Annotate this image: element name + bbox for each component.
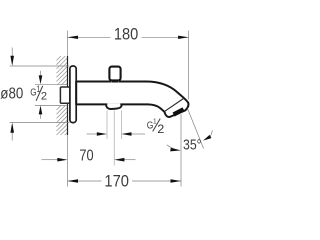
- svg-text:170: 170: [104, 173, 129, 191]
- flange escutcheon: [70, 66, 76, 123]
- dim G1/2 wall extension lines: [35, 83, 67, 85]
- dim o80 arrows (outside): [11, 48, 13, 57]
- bottom port bump: [106, 104, 122, 109]
- wall face line: [67, 56, 69, 135]
- svg-text:35°: 35°: [183, 136, 202, 153]
- dark aerator face: [174, 109, 184, 114]
- dim 70 arrows (outside): [42, 159, 58, 161]
- port G1/2 dim arrows (outside): [87, 133, 98, 135]
- dim 180 line: [68, 36, 111, 38]
- svg-text:1: 1: [153, 116, 156, 125]
- G1/2 wall label: [30, 84, 47, 103]
- spout body outline: [76, 82, 188, 118]
- dim 170 arrows: [68, 179, 79, 182]
- dim 170 line: [68, 180, 102, 182]
- svg-text:ø80: ø80: [0, 85, 23, 102]
- port extension lines: [106, 111, 108, 140]
- extension line left column (shared by 180 and 170 dims): [67, 31, 69, 57]
- 35 deg arc arrow right: [210, 130, 212, 136]
- svg-text:2: 2: [41, 91, 47, 103]
- spout aerator seam line: [165, 98, 185, 111]
- 35 deg arc arrow left: [167, 145, 177, 150]
- dim G1/2 wall arrows (outside): [40, 71, 42, 76]
- svg-text:180: 180: [114, 26, 138, 44]
- svg-text:70: 70: [79, 148, 93, 165]
- top knob: [109, 67, 120, 83]
- extension line right (170 dim / 35 deg vertical reference): [180, 114, 182, 187]
- dim o80 extension lines: [10, 65, 70, 67]
- extension line right (180 dim): [188, 31, 190, 100]
- port G1/2 label: [147, 116, 165, 136]
- wall hatching upper band: [57, 56, 68, 85]
- inlet nipple G1/2 tail: [60, 87, 70, 103]
- 35 deg slanted reference line: [188, 109, 204, 149]
- svg-text:2: 2: [157, 123, 164, 136]
- wall hatching lower band: [57, 106, 68, 135]
- dim 180 arrows: [68, 36, 79, 39]
